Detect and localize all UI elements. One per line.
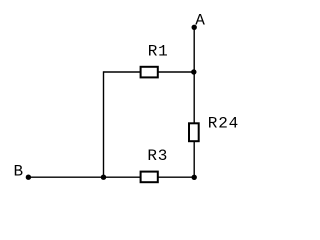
junction dot at R1 right / vertical wire <box>191 69 196 74</box>
wire: bottom junction to R3 left terminal <box>104 176 142 178</box>
wire: node A down to R1 junction <box>193 27 195 72</box>
wire: R3 right terminal to bottom-right corner <box>158 176 194 178</box>
junction dot at bottom-right corner <box>192 175 197 180</box>
resistor R3 <box>141 172 158 183</box>
junction dot at bottom wire / left vertical <box>101 175 106 180</box>
node A terminal dot <box>192 25 197 30</box>
svg-text:A: A <box>195 12 205 30</box>
wire: left corner to R1 left terminal <box>104 71 142 73</box>
wire: node B to bottom junction <box>28 176 103 178</box>
svg-text:B: B <box>14 163 24 181</box>
wire: R1 junction down to R24 top <box>193 72 195 124</box>
svg-text:R24: R24 <box>208 115 239 133</box>
wire: R1 right terminal to right vertical wire <box>158 71 194 73</box>
svg-text:R3: R3 <box>147 147 168 165</box>
resistor R1 <box>141 67 158 78</box>
resistor R24 <box>189 123 199 141</box>
wire: R24 bottom to bottom-right corner <box>193 142 195 178</box>
svg-text:R1: R1 <box>148 42 169 60</box>
wire: left vertical segment <box>103 71 105 177</box>
node B terminal dot <box>26 175 31 180</box>
